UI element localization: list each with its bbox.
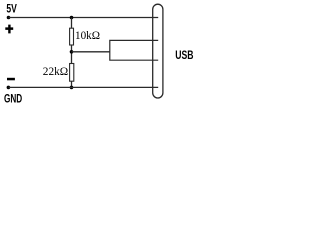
wire tap to box: [72, 51, 110, 53]
svg-text:GND: GND: [4, 94, 22, 106]
junction ground rail: [70, 86, 74, 90]
node 5V terminal: [7, 16, 11, 20]
node GND terminal: [7, 86, 11, 90]
minus symbol: [7, 78, 15, 81]
resistor R1 10k: [70, 28, 74, 45]
resistor R2 22k: [70, 64, 74, 82]
svg-text:22kΩ: 22kΩ: [43, 64, 68, 78]
wire 5V rail: [9, 17, 159, 19]
wire R1 bottom lead: [71, 45, 73, 64]
svg-text:USB: USB: [175, 48, 193, 62]
wire R2 bottom lead: [71, 81, 73, 87]
svg-text:5V: 5V: [6, 4, 17, 16]
wire R1 top lead: [71, 18, 73, 29]
box data pins component: [110, 40, 158, 60]
svg-text:10kΩ: 10kΩ: [75, 28, 100, 42]
wire ground rail: [9, 86, 159, 88]
junction divider tap: [70, 50, 74, 54]
plus symbol: [5, 25, 13, 34]
junction top of divider: [70, 16, 74, 20]
USB connector outline: [153, 4, 163, 98]
